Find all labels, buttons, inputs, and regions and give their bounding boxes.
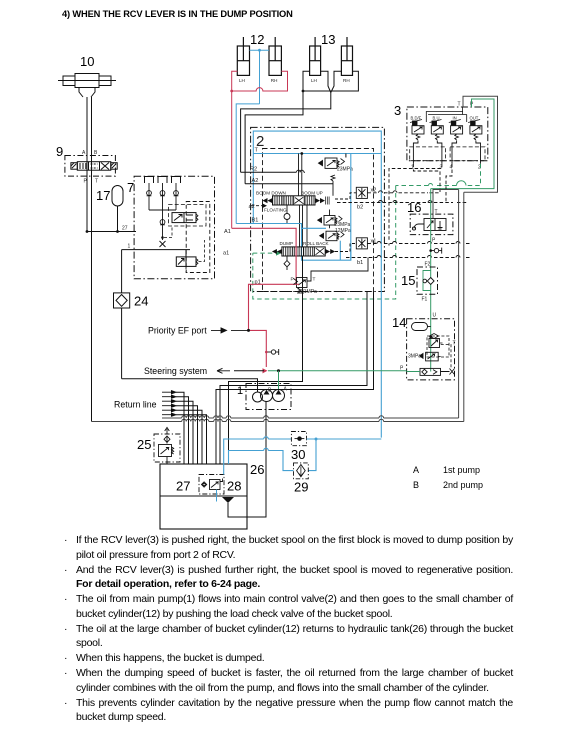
svg-text:27: 27 <box>176 479 190 494</box>
solenoid block 14 border <box>407 319 455 380</box>
drain circle under boom spool <box>253 205 287 224</box>
filter 29 diamond <box>297 465 306 477</box>
hops on return manifold <box>182 416 384 422</box>
plug X at 14 <box>441 369 455 375</box>
node blue <box>315 438 318 441</box>
check valve 1 in box 7 <box>147 183 152 210</box>
manifold wire in box 7 <box>149 210 176 240</box>
svg-text:R2: R2 <box>250 167 257 173</box>
svg-text:28: 28 <box>227 479 241 494</box>
main control valve 2 border <box>251 127 385 291</box>
pilot valve x1 <box>356 238 367 249</box>
wire P into 14 (green) <box>407 371 420 373</box>
RCV valve B.D/F <box>410 116 424 164</box>
MCV inner block border <box>263 149 374 292</box>
load check spring <box>331 175 335 196</box>
svg-text:1: 1 <box>128 244 131 250</box>
wire steering arrow <box>217 368 230 373</box>
node on red line <box>265 351 268 354</box>
node at valve9 line junction <box>86 230 89 233</box>
svg-text:A1: A1 <box>224 229 231 235</box>
box 7 solenoid valve block border <box>134 176 214 278</box>
valve 16 port labels <box>432 209 438 244</box>
svg-text:A2: A2 <box>252 178 259 184</box>
check valve 3 in box 7 <box>174 183 179 210</box>
filter 15 border <box>417 267 438 294</box>
pilot wire port3 to x1 (black dashed) <box>389 164 442 246</box>
wire steering to pump junction (green) <box>268 370 407 372</box>
svg-text:a1: a1 <box>223 251 229 257</box>
wire pump outlet (green) <box>278 371 280 389</box>
svg-text:LH: LH <box>311 78 317 83</box>
svg-text:10: 10 <box>80 54 94 69</box>
wire into 27/28 (blue) <box>216 490 218 502</box>
pilot valve x2 <box>356 187 367 198</box>
tank gallery wires below MCV <box>229 256 303 464</box>
accumulator 17 <box>112 186 123 207</box>
valve 27/28 border <box>199 475 224 495</box>
pilot wire x2 continue dashed <box>367 192 428 194</box>
pilot jog boom spool to x2 <box>335 193 356 199</box>
svg-text:B1: B1 <box>252 218 259 224</box>
plugged port X in box 7 <box>160 241 166 247</box>
return manifold upper line (gray) <box>162 190 459 419</box>
bucket spool X cell <box>316 248 325 255</box>
drain wire in 14 <box>440 343 452 368</box>
svg-text:1st pump: 1st pump <box>443 465 480 475</box>
box 7 port bracket 3 <box>172 177 181 184</box>
svg-text:T: T <box>313 277 316 283</box>
valve 27 check <box>202 482 207 487</box>
gallery wires below boom spool <box>300 205 308 247</box>
svg-text:T: T <box>458 102 461 108</box>
wire priority EF pointer <box>211 328 248 333</box>
red arrow into steering junction <box>263 368 268 373</box>
gauge port on steering line <box>266 349 278 355</box>
svg-text:13: 13 <box>321 32 335 47</box>
svg-text:T: T <box>95 179 98 185</box>
supply wire port 1 in box 7 <box>122 250 190 257</box>
main relief 21MPa <box>294 278 312 294</box>
svg-text:IN: IN <box>453 116 457 121</box>
wire 30 to 29 (blue) <box>307 439 382 471</box>
svg-text:12: 12 <box>250 32 264 47</box>
node cyl12 red <box>230 90 233 93</box>
node cyl12 blue <box>258 49 261 52</box>
RCV T P labels <box>458 102 475 108</box>
svg-text:P: P <box>291 277 294 283</box>
drain diamond under dump spool <box>286 256 288 270</box>
drain wires below MCV to return <box>216 292 374 465</box>
bucket spool end actuators <box>272 249 335 254</box>
filter 15 labels F2 F1 <box>422 262 431 303</box>
svg-text:Return line: Return line <box>114 400 157 410</box>
cylinder labels LH RH <box>239 78 277 83</box>
svg-text:1: 1 <box>237 385 243 397</box>
svg-text:12MPa: 12MPa <box>335 228 351 234</box>
svg-text:RH: RH <box>271 78 278 83</box>
valve 16 border <box>410 214 453 235</box>
reducing valve in 14 <box>420 352 441 361</box>
filter 29 border <box>294 463 309 479</box>
svg-text:T: T <box>453 341 456 347</box>
wire R2 row <box>241 171 305 173</box>
node in 14 <box>429 335 432 338</box>
node at accumulator junction <box>116 230 119 233</box>
wire T row <box>345 154 347 158</box>
svg-text:BOOM UP: BOOM UP <box>301 190 323 195</box>
box 7 port bracket 2 <box>158 177 167 184</box>
wire cyl13 rod-side (black) <box>245 71 358 184</box>
svg-text:ROLL BACK: ROLL BACK <box>303 241 330 246</box>
svg-text:DUMP: DUMP <box>280 241 294 246</box>
gauge port at 16 P <box>431 248 442 254</box>
MCV port labels <box>223 148 261 286</box>
wire 16 T return <box>433 190 459 219</box>
bucket spool DUMP / ROLL BACK <box>282 247 325 256</box>
pump B circle <box>261 390 273 402</box>
relief drain wire <box>311 258 368 278</box>
svg-text:P: P <box>432 238 436 244</box>
svg-text:B.U: B.U <box>433 116 440 121</box>
pilot wire b2 hops <box>379 201 433 203</box>
valve 9 <box>65 156 117 177</box>
pilot wire b1 dashed <box>346 257 470 259</box>
relief valve 25 border <box>154 434 180 462</box>
boom spool center arrows <box>295 197 304 204</box>
svg-text:30: 30 <box>291 447 305 462</box>
svg-text:A: A <box>413 465 419 475</box>
lower solenoid valve in box 7 <box>176 240 204 273</box>
svg-text:14: 14 <box>392 315 406 330</box>
cylinder labels LH RH <box>311 78 350 83</box>
check valve 2 in box 7 <box>160 183 165 210</box>
svg-text:2nd pump: 2nd pump <box>443 480 483 490</box>
wire A1 row (red) <box>232 228 296 330</box>
svg-text:7: 7 <box>127 180 134 195</box>
pump B A labels <box>268 387 288 394</box>
wire priority EF port (red) <box>249 330 267 367</box>
boom spool right cap <box>326 197 330 205</box>
accumulator in 14 <box>412 323 431 331</box>
spool labels <box>256 190 323 212</box>
relief valve 25 <box>159 428 174 465</box>
RCV inner sub-box left <box>410 147 446 161</box>
svg-text:26: 26 <box>250 462 264 477</box>
svg-text:Steering system: Steering system <box>144 366 207 376</box>
pump suction wire <box>228 402 266 518</box>
RCV internal gallery wires <box>426 107 466 122</box>
node 16 P <box>429 249 432 252</box>
RCV valve OUT <box>468 116 482 164</box>
svg-text:3: 3 <box>394 103 401 118</box>
pilot dashed wire to upper solenoid valve <box>164 226 172 238</box>
wire steering line black part <box>234 370 264 372</box>
svg-text:29: 29 <box>294 480 308 495</box>
svg-text:B: B <box>94 150 98 156</box>
pump triangles <box>264 390 282 395</box>
wire A2 row <box>245 183 333 185</box>
valve 9 port labels <box>82 150 98 185</box>
pilot wire port2 to a1 (green dashed) <box>253 164 481 299</box>
node in box 7 <box>161 236 164 239</box>
relief valve 23MPa lower <box>318 210 342 229</box>
wire cyl12 large chambers (red) <box>232 71 288 228</box>
cylinder 13 LH <box>310 37 321 75</box>
RCV valve B.U <box>430 116 444 164</box>
remote control valve 3 border <box>407 107 488 161</box>
svg-text:U: U <box>433 313 437 319</box>
svg-text:F1: F1 <box>422 297 428 303</box>
svg-text:B: B <box>413 480 419 490</box>
wire p1 (red) <box>296 283 299 285</box>
return line fan wires <box>176 392 207 464</box>
wire RCV T return (gray) <box>463 96 498 192</box>
valve 30 border <box>291 432 306 446</box>
svg-text:9: 9 <box>56 144 63 159</box>
cylinder 13 RH <box>341 37 352 75</box>
pump 1 border <box>246 384 291 410</box>
relief valve 23MPa upper <box>319 158 345 168</box>
pilot wire x1 continue dashed <box>367 243 470 245</box>
wire RCV P supply (green) <box>431 99 494 189</box>
svg-text:27: 27 <box>122 226 128 232</box>
pilot supply wire (green) through 16 <box>430 189 432 372</box>
RCV port labels 1 3 4 2 <box>411 165 481 171</box>
pilot wire port4 to b2 (black dashed) <box>446 164 452 203</box>
pilot jog bucket spool to x1 <box>335 244 356 252</box>
wire tank to 30 (blue) <box>224 437 294 475</box>
pilot wire b2 dashed <box>337 202 468 204</box>
wire from 10 to valve 9 (A line) <box>86 97 88 232</box>
svg-text:21MPa: 21MPa <box>301 289 317 295</box>
svg-text:F2: F2 <box>425 262 431 268</box>
svg-text:a2: a2 <box>249 204 255 210</box>
cylinder 12 RH <box>269 37 281 75</box>
hydraulic tank 26 <box>160 464 247 529</box>
pilot wire port1 to x2 (black dashed) <box>413 164 440 193</box>
pump gear circle <box>253 392 263 402</box>
svg-text:RH: RH <box>343 78 350 83</box>
svg-text:16: 16 <box>407 200 421 215</box>
node cyl13 <box>302 90 305 93</box>
node steering junction <box>277 369 280 372</box>
upper solenoid valve in box 7 <box>169 205 207 227</box>
box 7 port bracket 1 <box>145 177 154 184</box>
wire cyl13 head-side merge (black) <box>241 71 342 172</box>
inlet valve in 14 <box>420 368 441 375</box>
svg-text:Priority EF port: Priority EF port <box>148 326 207 336</box>
svg-text:b2: b2 <box>357 205 363 211</box>
cylinder 12 LH <box>237 37 249 75</box>
svg-text:15: 15 <box>401 273 415 288</box>
svg-text:A: A <box>82 150 86 156</box>
pilot wire a1 arrow (green dashed) <box>253 252 276 254</box>
wire cyl12 small chambers (blue) <box>236 50 269 223</box>
svg-text:BOOM DOWN: BOOM DOWN <box>256 190 286 195</box>
svg-text:17: 17 <box>96 188 110 203</box>
steering unit 10 <box>58 74 116 98</box>
check valve mid in box 7 <box>160 220 165 225</box>
return line hatch marks <box>162 390 176 416</box>
wire from 10 through valve 9 down to return (B/T line) <box>91 97 93 422</box>
boom spool BOOM DOWN / BOOM UP <box>273 196 316 205</box>
boom spool hatch <box>274 196 313 205</box>
bucket spool hatch <box>284 247 313 256</box>
return manifold lower line (gray) <box>92 192 464 421</box>
valve 28 relief <box>210 479 223 490</box>
spool labels DUMP ROLL BACK <box>280 241 330 246</box>
valve 30 orifice <box>295 437 305 441</box>
relief valve 12MPa <box>320 231 344 241</box>
box 7 inner dashed enclosure right <box>186 202 210 273</box>
solenoid valve in 14 <box>427 334 449 358</box>
pump A circle <box>273 390 285 402</box>
svg-text:3MPa: 3MPa <box>408 354 421 360</box>
wire B1 regen path (blue) <box>236 154 351 261</box>
wire pilot supply to box 7 port 27 <box>87 231 136 233</box>
svg-text:25: 25 <box>137 437 151 452</box>
svg-text:LH: LH <box>239 78 245 83</box>
RCV valve IN <box>449 116 463 164</box>
filter 24 <box>114 250 130 379</box>
suction strainer <box>222 497 234 503</box>
svg-text:T: T <box>435 209 438 215</box>
RCV inner sub-box right <box>450 147 485 161</box>
node priority junction <box>247 329 250 332</box>
supply highlight box (blue) <box>253 131 381 438</box>
gallery wires above boom spool <box>299 154 302 196</box>
svg-text:b1: b1 <box>357 260 363 266</box>
port labels P T at relief <box>291 277 316 283</box>
svg-text:T: T <box>255 148 259 154</box>
svg-text:FLOATING: FLOATING <box>264 208 287 213</box>
wire pilot pump feed <box>122 379 258 392</box>
valve 16 body <box>412 219 446 231</box>
pilot a2 dashed to boom spool <box>251 205 262 207</box>
svg-text:24: 24 <box>134 294 148 309</box>
boom spool end actuators <box>263 198 326 203</box>
filter 15 body <box>423 271 434 291</box>
